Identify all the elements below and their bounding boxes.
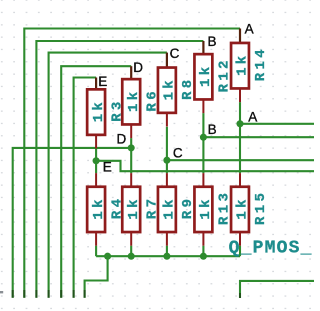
pin stub top of R12 [202, 41, 204, 54]
pin top of R4 [95, 173, 97, 186]
wire net D feed (left bus to R6) [61, 66, 131, 298]
resistor R4 body [87, 187, 105, 232]
resistor R12 body [194, 54, 212, 99]
wire end tip x=61 [60, 290, 62, 298]
svg-text:C: C [170, 46, 180, 61]
resistor R8 body [158, 68, 176, 113]
wire end tip x=85 [84, 290, 86, 298]
wire end tip x=13 [12, 290, 14, 298]
svg-text:B: B [208, 122, 217, 137]
resistor R3 body [87, 89, 105, 135]
wire R8-R9 column (net C) [166, 127, 168, 173]
svg-text:B: B [208, 34, 217, 49]
svg-text:1k: 1k [91, 196, 107, 219]
wire net E (jog right) [96, 161, 314, 171]
node A junction dot [236, 120, 243, 127]
wire bottom-right [240, 281, 314, 298]
svg-text:1k: 1k [198, 64, 214, 87]
svg-text:D: D [133, 60, 143, 75]
svg-text:D: D [117, 132, 127, 147]
pin stub top of R8 [166, 53, 168, 68]
wire bottom-left branch [85, 256, 108, 298]
pin bottom of R3 [95, 135, 97, 148]
pin stub top of R6 [130, 66, 132, 79]
pin top of R13 [202, 173, 204, 186]
svg-text:R15: R15 [253, 190, 269, 225]
wire bottom lead x=96 [95, 246, 97, 257]
left edge tick [0, 291, 3, 293]
svg-text:1k: 1k [91, 99, 107, 122]
wire bottom bus [96, 255, 240, 257]
svg-text:1k: 1k [198, 196, 214, 219]
bus junction dot at R13 [200, 253, 207, 260]
pin bottom of R15 [239, 232, 241, 245]
pin bottom of R6 [130, 125, 132, 138]
svg-text:A: A [245, 22, 254, 37]
wire net B (right) [203, 136, 314, 138]
node C junction dot [163, 157, 170, 164]
resistor R15 body [231, 187, 249, 232]
wire net E feed (left bus to R3) [74, 78, 97, 298]
resistor R9 body [158, 187, 176, 232]
svg-text:Q_PMOS_: Q_PMOS_ [229, 238, 313, 258]
wire bottom lead x=240 [239, 246, 241, 257]
wire bottom lead x=167 [166, 246, 168, 257]
bus branch junction dot [104, 253, 111, 260]
resistor R6 body [122, 79, 140, 124]
pin bottom of R12 [202, 100, 204, 113]
wire end tip x=74 [73, 290, 75, 298]
svg-text:1k: 1k [235, 52, 251, 75]
wire net C (right) [167, 159, 314, 161]
wire end tip x=36 [35, 290, 37, 298]
pin bottom of R9 [166, 232, 168, 245]
pin bottom of R13 [202, 232, 204, 245]
wire R12-R13 column (net B) [202, 113, 204, 173]
pin stub top of R3 [95, 78, 97, 90]
wire net A feed (left bus to R14) [24, 29, 240, 298]
wire R6-R7 column (net D) [130, 138, 132, 173]
svg-text:E: E [103, 159, 112, 174]
svg-text:C: C [173, 146, 183, 161]
svg-text:1k: 1k [235, 196, 251, 219]
wire end tip x=24 [23, 290, 25, 298]
pin bottom of R4 [95, 232, 97, 245]
svg-text:E: E [98, 74, 107, 89]
wire end tip x=49 [48, 290, 50, 298]
wire bottom lead x=131 [130, 246, 132, 257]
resistor R7 body [122, 187, 140, 232]
bus junction dot at R9 [163, 253, 170, 260]
svg-text:A: A [248, 110, 257, 125]
wire end tip x=240 [239, 293, 241, 298]
node D junction dot [128, 144, 135, 151]
pin top of R7 [130, 173, 132, 186]
wire R14-R15 column (net A) [239, 102, 241, 173]
wire net D return (left) [13, 148, 132, 298]
pin top of R15 [239, 173, 241, 186]
resistor R14 body [231, 43, 249, 88]
svg-text:1k: 1k [126, 89, 142, 112]
wire net B feed (left bus to R12) [36, 41, 203, 298]
bus junction dot at R7 [128, 253, 135, 260]
pin top of R9 [166, 173, 168, 186]
svg-text:1k: 1k [126, 196, 142, 219]
svg-text:1k: 1k [162, 196, 178, 219]
wire net A (right) [240, 123, 314, 125]
svg-text:1k: 1k [162, 77, 178, 100]
node E junction dot [93, 157, 100, 164]
wire bottom lead x=203 [202, 246, 204, 257]
wire R3-R4 column (net E) [95, 149, 97, 174]
pin bottom of R7 [130, 232, 132, 245]
pin stub top of R14 [239, 29, 241, 43]
pin bottom of R14 [239, 89, 241, 102]
resistor R13 body [194, 187, 212, 232]
svg-text:R14: R14 [253, 46, 269, 81]
wire net C feed (left bus to R8) [49, 53, 167, 298]
pin bottom of R8 [166, 113, 168, 126]
node B junction dot [200, 134, 207, 141]
